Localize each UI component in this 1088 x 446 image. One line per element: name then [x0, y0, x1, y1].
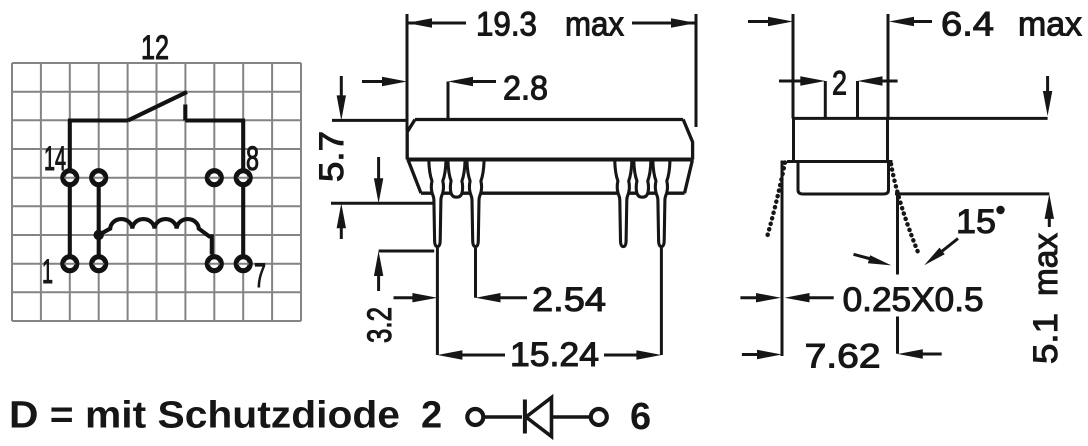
leader 15 degrees — [940, 239, 958, 253]
pin 8 side view — [653, 160, 670, 247]
body side right — [886, 118, 889, 161]
dimension 19.3 max line — [407, 22, 696, 25]
dimension 2.54 lines — [394, 296, 528, 299]
arrowhead 7.62 left — [757, 350, 782, 359]
extension pin right long — [660, 248, 663, 355]
degree dot — [996, 206, 1004, 214]
wire diode right — [552, 415, 591, 418]
arrowhead 2.54 left — [412, 293, 437, 302]
extension line 19.3 left — [406, 14, 409, 131]
dimension 5.1 bottom shaft — [1048, 217, 1051, 228]
coil L1 — [99, 219, 212, 254]
svg-text:5.7: 5.7 — [313, 131, 351, 182]
dimension 6.4 max lines — [748, 20, 932, 23]
dimension 5.1 top shaft — [1046, 76, 1049, 93]
terminal circle 2 — [467, 409, 483, 425]
extension line 19.3 right — [695, 14, 698, 127]
svg-text:D = mit Schutzdiode: D = mit Schutzdiode — [9, 395, 400, 437]
pin 12 side view — [467, 160, 484, 247]
body top reference line left — [332, 119, 407, 122]
arrowhead 15.24 left — [437, 350, 462, 359]
arrowhead 5.1 top — [1043, 91, 1052, 116]
svg-text:5.1: 5.1 — [1027, 313, 1065, 364]
svg-text:6: 6 — [630, 396, 651, 438]
extension line 2 right — [856, 81, 859, 118]
arrowhead 2.54 right — [476, 293, 501, 302]
pin 1b terminal — [92, 257, 106, 271]
dimension 2 lines — [779, 80, 898, 83]
svg-text:14: 14 — [44, 140, 66, 178]
dimension 5.7 arrow shafts — [340, 76, 343, 239]
arrowhead 0.25 left — [756, 293, 781, 302]
diode D1 cathode bar — [523, 400, 527, 434]
wire switch top left — [68, 118, 128, 122]
lower housing — [798, 162, 889, 195]
arrowhead 7.62 right — [898, 349, 923, 358]
extension line 6.4 left — [792, 14, 795, 119]
arrowhead 2.8 left — [382, 77, 407, 86]
extension pin second — [474, 248, 477, 298]
extension line 2 left — [824, 81, 827, 118]
arrowhead 6.4 right — [889, 17, 914, 26]
wire diode left — [485, 415, 522, 418]
leg left splayed — [767, 163, 786, 240]
junction node — [94, 230, 104, 240]
dimension 2.8 lines — [362, 80, 496, 83]
dimension 3.2 arrow shafts — [377, 157, 380, 291]
pin 14 terminal — [63, 171, 77, 185]
arrowhead 2 left — [800, 76, 825, 85]
pin 9 side view — [615, 160, 632, 247]
arrowhead 6.4 left — [768, 17, 793, 26]
body top line with 5.1 reference — [794, 117, 1048, 120]
pin 14 side view — [429, 160, 446, 247]
extension line 6.4 right — [887, 14, 890, 119]
terminal circle 6 — [591, 409, 607, 425]
arrowhead 5.7 top — [337, 95, 346, 120]
pin 10 stub side view — [634, 160, 651, 197]
leg extension left — [781, 161, 784, 357]
dimension 15.24 lines — [459, 354, 639, 357]
relay body lower right slope — [685, 161, 693, 194]
relay body lower left slope — [408, 161, 421, 194]
leader 0.25X0.5 — [854, 254, 872, 259]
svg-text:19.3: 19.3 — [476, 6, 537, 44]
svg-text:7.62: 7.62 — [805, 338, 881, 376]
seating reference line 5.1 — [895, 192, 1049, 195]
switch contact tick — [183, 105, 187, 121]
arrowhead 2 right — [858, 76, 883, 85]
arrowhead 19.3 right — [671, 18, 696, 27]
svg-text:max: max — [1018, 6, 1082, 44]
svg-text:7: 7 — [254, 257, 266, 295]
diode D1 triangle — [526, 398, 552, 437]
arrowhead 3.2 bottom — [374, 251, 383, 276]
arrowhead leader 0.25 — [868, 255, 891, 265]
relay body bottom edge — [421, 192, 685, 195]
relay body upper left chamfer — [407, 120, 415, 160]
extension pin left long — [436, 248, 439, 355]
pin 13 stub side view — [448, 160, 465, 197]
pin 14b terminal — [92, 171, 106, 185]
arrowhead 19.3 left — [407, 18, 432, 27]
pin 1 terminal — [63, 257, 77, 271]
svg-text:2.54: 2.54 — [532, 281, 606, 319]
switch blade S1 — [128, 92, 187, 121]
svg-text:2: 2 — [421, 395, 442, 437]
arrowhead 5.1 bottom — [1045, 194, 1054, 219]
wire right vertical pin8-pin7 — [241, 121, 245, 264]
svg-text:0.25X0.5: 0.25X0.5 — [843, 281, 984, 319]
pin tip reference line — [379, 250, 435, 253]
body side left — [792, 118, 795, 161]
svg-text:8: 8 — [246, 140, 259, 178]
svg-text:3.2: 3.2 — [361, 307, 399, 343]
arrowhead 2.8 right — [448, 77, 473, 86]
arrowhead 15 degrees — [924, 248, 945, 266]
grid — [12, 63, 301, 321]
leg right splayed — [891, 164, 920, 256]
pin 8b terminal — [207, 171, 221, 185]
svg-text:max: max — [565, 6, 624, 44]
svg-text:12: 12 — [141, 29, 169, 67]
relay body upper right chamfer — [683, 120, 692, 160]
pin 7b terminal — [207, 257, 221, 271]
svg-text:6.4: 6.4 — [941, 6, 994, 44]
wire left vertical pin14-pin1 — [68, 121, 72, 264]
wire coil-left vertical — [97, 178, 101, 264]
arrowhead 5.7 bottom — [337, 203, 346, 228]
seating reference line — [331, 202, 435, 205]
svg-text:15.24: 15.24 — [510, 336, 599, 374]
leg extension right — [896, 193, 899, 354]
grid segments through terminal holes — [64, 178, 248, 264]
arrowhead 3.2 top — [374, 178, 383, 203]
shoulder line — [787, 160, 893, 163]
extension line 2.8 — [447, 82, 450, 120]
wire switch top right — [185, 118, 245, 122]
arrowhead 0.25 right — [785, 293, 810, 302]
dimension 7.62 lines — [742, 353, 942, 357]
relay body seam line — [407, 158, 694, 162]
svg-text:1: 1 — [42, 253, 53, 291]
svg-text:2: 2 — [832, 65, 847, 103]
pin 7 terminal — [236, 257, 250, 271]
dimension 0.25 lines — [740, 296, 833, 299]
arrowhead 15.24 right — [636, 350, 661, 359]
pin 8 terminal — [236, 171, 250, 185]
svg-text:max: max — [1027, 233, 1065, 296]
svg-text:15: 15 — [956, 203, 996, 241]
relay body top edge — [415, 118, 683, 121]
svg-text:2.8: 2.8 — [503, 70, 548, 108]
